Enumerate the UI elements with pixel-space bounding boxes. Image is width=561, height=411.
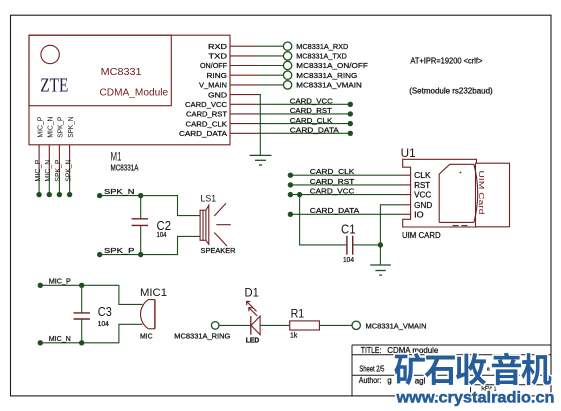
designator U1 [401, 146, 416, 160]
svg-text:CDMA_Module: CDMA_Module [100, 87, 169, 98]
svg-text:agl: agl [415, 376, 426, 385]
svg-text:Author:: Author: [359, 376, 382, 385]
wire GND to ground [258, 95, 260, 156]
svg-text:CARD_RST: CARD_RST [290, 106, 332, 115]
designator R1 [291, 307, 305, 321]
wire MIC_N [45, 160, 52, 198]
svg-text:GND: GND [208, 90, 228, 99]
svg-text:SPK_P: SPK_P [55, 159, 62, 181]
rev text [481, 387, 497, 393]
svg-text:UIM Card: UIM Card [477, 171, 486, 215]
svg-text:MC8331A_VMAIN: MC8331A_VMAIN [366, 321, 427, 330]
svg-text:ON/OFF: ON/OFF [200, 61, 227, 70]
junction CARD_VCC to C1 [297, 192, 347, 245]
speaker LS1 [200, 203, 231, 246]
pin CARD_CLK of M1 [186, 119, 259, 128]
svg-text:MIC_N: MIC_N [49, 334, 71, 343]
ZTE logo text [40, 76, 68, 97]
wire MIC_P [35, 159, 42, 197]
wire R1 to VMAIN port [319, 324, 352, 326]
wire MIC_P net [38, 277, 143, 305]
svg-text:CARD_VCC: CARD_VCC [185, 100, 228, 109]
port MC8331A_RING [174, 322, 230, 341]
wire and port MC8331A_TXD [258, 52, 347, 61]
svg-text:104: 104 [157, 232, 167, 239]
value 1k [290, 333, 298, 340]
pin V_MAIN of M1 [199, 81, 258, 90]
svg-text:VCC: VCC [414, 191, 431, 200]
diode D1 LED [247, 301, 261, 334]
pin ON/OFF of M1 [200, 61, 258, 70]
pin GND of M1 [208, 90, 258, 99]
wire net CARD_RST (U1 side) [288, 177, 402, 188]
value MC8331A [111, 163, 139, 173]
svg-text:D1: D1 [245, 286, 260, 300]
svg-text:MIC_P: MIC_P [49, 277, 71, 286]
wire SPK_P [55, 159, 62, 197]
connector U1 frame [403, 159, 477, 227]
svg-text:AT+IPR=19200 <crlf>: AT+IPR=19200 <crlf> [410, 56, 482, 65]
svg-text:MIC_P: MIC_P [37, 116, 44, 137]
wire and port MC8331A_ON/OFF [258, 61, 368, 70]
wire net CARD_DATA (module side) [258, 126, 353, 137]
wire junction down to ground [379, 245, 381, 265]
wire MIC_N net [38, 324, 143, 345]
pin MIC_N of M1 (bottom) [48, 117, 55, 173]
pin SPK_N of M1 (bottom) [68, 117, 75, 173]
capacitor C1 [341, 221, 356, 264]
svg-text:CARD_DATA: CARD_DATA [310, 206, 359, 215]
designator LS1 [201, 194, 217, 205]
wire and port MC8331A_RXD [258, 42, 349, 51]
wire net CARD_VCC (module side) [258, 97, 353, 108]
pin SPK_P of M1 (bottom) [58, 116, 65, 173]
svg-text:TXD: TXD [209, 52, 228, 61]
svg-text:CARD_VCC: CARD_VCC [310, 187, 355, 196]
sheet text [359, 365, 384, 374]
wire junction up to U1 GND pin [380, 205, 402, 245]
label CDMA_Module [100, 87, 169, 98]
svg-text:TITLE:: TITLE: [361, 346, 382, 355]
module M1 MC8331A body [29, 35, 230, 145]
label SPEAKER [201, 246, 237, 255]
wire C1 right to junction [353, 242, 383, 247]
pin CARD_VCC of M1 [185, 100, 258, 109]
svg-text:RING: RING [207, 71, 228, 80]
svg-text:MC8331A: MC8331A [111, 163, 139, 173]
svg-text:V_MAIN: V_MAIN [199, 81, 227, 90]
svg-text:1k: 1k [290, 333, 298, 340]
svg-text:LED: LED [246, 338, 259, 345]
svg-text:ZTE: ZTE [40, 76, 68, 97]
wire RING to LED [219, 324, 251, 326]
note AT command [410, 56, 482, 65]
svg-text:SPK_P: SPK_P [58, 116, 65, 137]
wire LED to R1 [260, 324, 290, 326]
svg-text:RST: RST [414, 181, 430, 190]
svg-text:MC8331A_VMAIN: MC8331A_VMAIN [296, 81, 362, 90]
pin CARD_RST of M1 [186, 110, 258, 119]
wire and port MC8331A_RING [258, 71, 357, 80]
svg-text:MC8331: MC8331 [101, 66, 142, 78]
svg-text:SPK_N: SPK_N [68, 117, 75, 138]
wire net CARD_RST (module side) [258, 106, 353, 117]
pin IO of U1 [402, 210, 424, 219]
svg-text:104: 104 [98, 321, 109, 328]
svg-text:Sheet 2/5: Sheet 2/5 [359, 365, 384, 374]
svg-text:CARD_VCC: CARD_VCC [290, 97, 334, 106]
capacitor C2 [132, 196, 171, 255]
svg-text:MC8331A_ON/OFF: MC8331A_ON/OFF [296, 61, 368, 70]
svg-text:U1: U1 [401, 146, 416, 160]
svg-text:R1: R1 [291, 307, 305, 321]
microphone MIC1 [141, 300, 155, 329]
svg-text:MC8331A_RING: MC8331A_RING [174, 334, 230, 341]
label MIC [140, 334, 153, 341]
wire SPK_P net [97, 236, 200, 257]
svg-text:SPEAKER: SPEAKER [201, 246, 237, 255]
pin MIC_P of M1 (bottom) [37, 116, 44, 173]
ground symbol (under C1) [370, 265, 391, 275]
svg-text:IO: IO [414, 210, 424, 219]
svg-text:g: g [387, 376, 391, 385]
label MC8331 [101, 66, 142, 78]
designator MIC1 [140, 287, 167, 299]
svg-text:CLK: CLK [414, 171, 431, 180]
svg-text:SPK_P: SPK_P [104, 246, 135, 255]
author text [359, 366, 491, 385]
designator M1 [111, 152, 122, 164]
watermark crystalradio [394, 353, 554, 407]
svg-text:CARD_DATA: CARD_DATA [179, 129, 227, 138]
pin TXD of M1 [209, 52, 259, 61]
svg-text:CARD_RST: CARD_RST [186, 110, 227, 119]
title block lines [352, 345, 551, 396]
wire net CARD_DATA (U1 side) [288, 206, 402, 217]
pin CLK of U1 [402, 171, 431, 180]
svg-text:MC8331A_RXD: MC8331A_RXD [296, 42, 349, 51]
svg-text:MC8331A_TXD: MC8331A_TXD [296, 52, 347, 61]
wire SPK_N net [97, 187, 200, 216]
UIM card body [439, 163, 509, 227]
svg-text:C2: C2 [157, 218, 172, 233]
svg-text:MIC1: MIC1 [140, 287, 167, 299]
resistor R1 [290, 321, 320, 330]
svg-text:a: a [487, 366, 491, 372]
pin RING of M1 [207, 71, 259, 80]
svg-text:www.crystalradio.cn: www.crystalradio.cn [395, 389, 554, 406]
svg-text:MC8331A_RING: MC8331A_RING [296, 71, 357, 80]
title text [361, 346, 439, 355]
pin GND of U1 [402, 201, 432, 210]
svg-text:CARD_CLK: CARD_CLK [310, 167, 355, 176]
label UIM CARD [402, 230, 441, 240]
capacitor C3 [74, 285, 112, 343]
svg-text:GND: GND [414, 201, 432, 210]
svg-text:CARD_RST: CARD_RST [310, 177, 355, 186]
svg-text:CARD_DATA: CARD_DATA [290, 126, 339, 135]
wire net CARD_VCC (U1 side) [288, 187, 402, 198]
note set module baud [409, 87, 493, 96]
wire and port MC8331A_VMAIN [258, 81, 362, 90]
svg-text:SPK_N: SPK_N [65, 160, 72, 182]
svg-text:CARD_CLK: CARD_CLK [186, 119, 228, 128]
wire net CARD_CLK (U1 side) [288, 167, 402, 178]
svg-text:MIC_N: MIC_N [48, 117, 55, 138]
wire SPK_N [65, 160, 72, 198]
pin CARD_DATA of M1 [179, 129, 258, 138]
designator D1 [245, 286, 260, 300]
svg-text:(Setmodule rs232baud): (Setmodule rs232baud) [409, 87, 493, 96]
svg-text:C3: C3 [98, 304, 112, 319]
port MC8331A_VMAIN [352, 321, 427, 330]
svg-text:LS1: LS1 [201, 194, 217, 205]
pin RST of U1 [402, 181, 430, 190]
label LED [246, 338, 259, 345]
svg-text:UIM CARD: UIM CARD [402, 230, 441, 240]
svg-text:104: 104 [343, 257, 354, 264]
ground symbol (module GND) [250, 155, 272, 165]
svg-text:C1: C1 [341, 221, 356, 236]
svg-text:RXD: RXD [208, 42, 228, 51]
pin RXD of M1 [208, 42, 258, 51]
wire net CARD_CLK (module side) [258, 116, 353, 127]
pin VCC of U1 [402, 191, 431, 200]
svg-text:MIC: MIC [140, 334, 153, 341]
svg-text:MIC_P: MIC_P [35, 159, 42, 181]
svg-text:CARD_CLK: CARD_CLK [290, 116, 333, 125]
svg-text:MIC_N: MIC_N [45, 160, 52, 182]
svg-text:SPK_N: SPK_N [104, 187, 135, 196]
